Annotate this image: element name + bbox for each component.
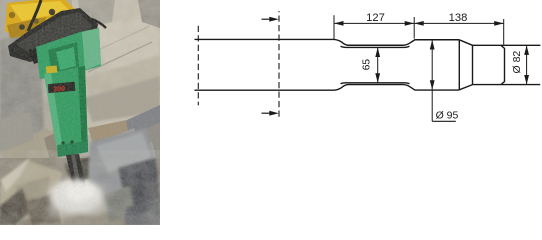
taper bottom xyxy=(459,85,472,90)
chisel tool xyxy=(66,154,88,199)
shank top line and waist outer top line xyxy=(195,39,460,45)
lower rubble rocks right xyxy=(84,76,160,225)
svg-text:Ø 95: Ø 95 xyxy=(436,110,459,122)
svg-text:65: 65 xyxy=(361,59,372,71)
break arrow bottom xyxy=(262,111,279,116)
dimension 65 (waist height) xyxy=(361,48,380,83)
waist inner bottom line xyxy=(341,82,410,85)
yellow excavator arm xyxy=(5,0,78,39)
dimension 127 xyxy=(334,12,414,39)
bottom boulders xyxy=(0,128,160,225)
svg-text:127: 127 xyxy=(366,12,385,24)
shank bottom line and waist outer bottom line xyxy=(195,85,460,91)
green breaker body xyxy=(44,66,88,157)
taper top xyxy=(459,40,472,46)
small cylinder top line xyxy=(473,44,541,46)
mid scree band xyxy=(0,112,74,182)
breaker labels xyxy=(46,65,76,93)
waist inner top line xyxy=(341,46,410,47)
break/cut dashed line left xyxy=(197,26,199,106)
photo grain xyxy=(0,0,160,225)
break/cut dashed line right xyxy=(278,11,280,119)
dimension diameter 95 xyxy=(430,40,459,122)
tool profile outline xyxy=(195,39,541,90)
dimension diameter 82 xyxy=(511,45,529,84)
dimension 138 xyxy=(414,12,504,45)
svg-text:Ø 82: Ø 82 xyxy=(511,51,523,74)
photo background rock wall xyxy=(0,0,160,225)
photo of hydraulic breaker in quarry xyxy=(0,0,160,225)
dust cloud at impact xyxy=(48,179,107,218)
black hoses xyxy=(28,0,106,31)
end face with chamfers xyxy=(501,45,505,84)
green breaker upper section xyxy=(36,28,101,79)
big collar end face xyxy=(458,40,460,90)
svg-text:138: 138 xyxy=(449,12,468,24)
small cylinder bottom line xyxy=(473,84,541,86)
break arrow top xyxy=(262,17,279,22)
black mounting bracket xyxy=(8,8,98,64)
small cylinder junction edge xyxy=(472,45,474,84)
